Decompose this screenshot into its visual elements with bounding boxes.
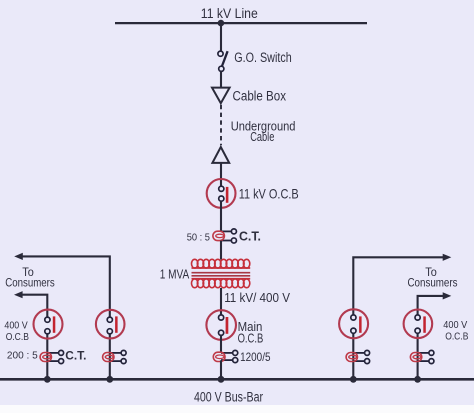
CT: left outer feeder 200:5 [40,350,64,363]
wire: sealing end down to 11 kV O.C.B [220,163,222,186]
busbar: 400 V Bus-Bar [0,378,474,381]
svg-text:G.O. Switch: G.O. Switch [234,50,291,65]
cable box: down-pointing triangle sealing end [212,88,230,104]
svg-text:O.C.B: O.C.B [6,331,29,343]
svg-text:Cable Box: Cable Box [233,89,287,104]
label: To Consumers (left) [5,265,55,289]
CT: right inner feeder [410,350,434,363]
svg-text:400 V: 400 V [443,319,467,331]
svg-text:O.C.B: O.C.B [238,331,264,346]
svg-text:O.C.B: O.C.B [445,331,468,343]
CT: right outer feeder [346,350,370,363]
wire: 11 kV incoming line (top horizontal) [115,22,367,24]
label: 400 V O.C.B (right) [443,319,468,342]
CT: current transformer 50:5 [213,229,237,243]
svg-text:1 MVA: 1 MVA [160,266,190,281]
node: bus junction feeder L outer [44,376,51,383]
svg-text:Consumers: Consumers [5,275,55,289]
wire: from 11 kV line down to G.O. switch [220,23,222,51]
label: 400 V O.C.B (left) [4,320,29,343]
wire: breaker to C.T. [220,201,222,231]
node: bus junction feeder R inner [414,376,421,383]
svg-text:C.T.: C.T. [65,349,86,363]
label: Main O.C.B [238,319,264,345]
breaker U2: Main O.C.B [206,310,236,340]
wire: right outer feeder riser with arrow to consumers [353,254,451,380]
label: To Consumers (right) [408,265,458,289]
svg-text:1200/5: 1200/5 [240,350,271,364]
switch: G.O. Switch (isolator) [218,51,228,71]
label: Underground Cable [231,118,296,144]
node: bus junction feeder L inner [106,376,113,383]
node: junction of feeder with 11 kV line [218,20,225,27]
breaker: 400 V O.C.B right outer [339,309,368,338]
node: bus junction incomer [218,376,225,383]
wire: switch to cable box [220,71,222,87]
wire: transformer to Main O.C.B [220,288,222,315]
wire: Main O.C.B to 1200/5 CT [220,335,222,352]
wire: CT to bus-bar [220,360,222,379]
breaker: 400 V O.C.B left outer [34,310,63,339]
svg-text:11 kV Line: 11 kV Line [201,6,258,21]
breaker: 400 V O.C.B right inner [404,310,433,339]
breaker: 400 V O.C.B left inner [96,310,125,339]
wire: left inner feeder riser with arrow to consumers [14,253,110,379]
svg-text:11 kV/ 400 V: 11 kV/ 400 V [224,290,290,305]
node: bus junction feeder R outer [350,376,357,383]
svg-text:C.T.: C.T. [239,229,261,243]
svg-text:200 : 5: 200 : 5 [7,349,38,361]
transformer T1: 1 MVA 11 kV/400 V [192,259,251,287]
wire: left outer feeder riser with arrow to consumers [14,291,47,379]
CT: current transformer 1200/5 [213,350,237,362]
svg-text:Consumers: Consumers [408,275,458,289]
wire: underground cable (dashed) [220,105,222,145]
svg-text:11 kV O.C.B: 11 kV O.C.B [239,186,299,202]
svg-text:50 : 5: 50 : 5 [187,231,210,243]
svg-text:400 V Bus-Bar: 400 V Bus-Bar [194,390,263,405]
cable sealing end: up-pointing triangle [212,147,229,163]
breaker U1: 11 kV O.C.B [207,179,236,208]
svg-text:Cable: Cable [250,129,274,144]
svg-text:400 V: 400 V [4,320,27,332]
wire: right inner feeder riser with arrow to consumers [418,292,452,379]
CT: left inner feeder [103,350,127,363]
wire: C.T. to transformer [220,241,222,260]
